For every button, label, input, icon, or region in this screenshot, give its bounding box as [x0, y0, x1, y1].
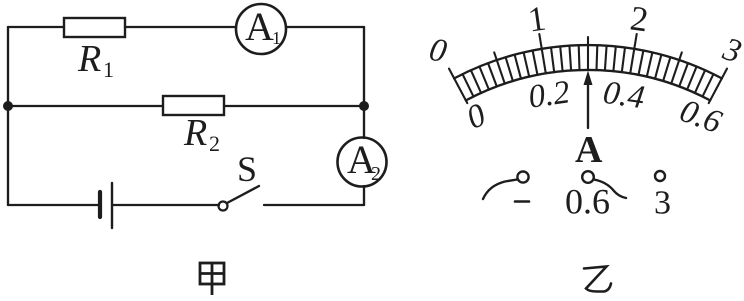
label R2 — [183, 112, 220, 156]
wire 0.6 terminal lead — [594, 180, 626, 199]
svg-text:R: R — [77, 38, 101, 80]
wire left vertical — [7, 27, 9, 205]
resistor R2 — [163, 96, 224, 115]
svg-text:0: 0 — [426, 32, 450, 71]
wire switch to battery — [113, 204, 219, 206]
svg-text:S: S — [237, 149, 257, 189]
label R1 — [77, 38, 114, 82]
svg-text:0.6: 0.6 — [675, 93, 727, 141]
svg-text:2: 2 — [628, 0, 651, 40]
resistor R1 — [64, 18, 125, 37]
meter scale upper numerals — [426, 0, 744, 71]
meter scale lower numerals — [462, 74, 727, 141]
wire R1 to A1 — [125, 26, 236, 28]
terminal negative — [517, 171, 528, 182]
svg-text:2: 2 — [209, 131, 220, 156]
wire right vertical upper — [363, 27, 365, 138]
svg-text:3: 3 — [654, 185, 671, 222]
node left junction — [3, 101, 13, 111]
wire negative terminal lead — [483, 180, 517, 200]
node right junction — [359, 101, 369, 111]
svg-text:1: 1 — [272, 28, 281, 48]
wire A1 to top right corner — [286, 26, 364, 28]
meter scale inner arc — [466, 70, 710, 100]
wire bottom left segment — [8, 204, 98, 206]
terminal 0.6 — [582, 171, 594, 183]
wire bottom right segment — [264, 204, 364, 206]
svg-text:R: R — [183, 112, 207, 154]
svg-text:0.4: 0.4 — [601, 75, 647, 116]
svg-text:1: 1 — [526, 0, 549, 40]
ammeter A2 — [338, 137, 387, 187]
meter scale outer arc — [454, 45, 722, 78]
terminal 3 — [655, 171, 665, 181]
switch S — [219, 186, 260, 211]
svg-text:A: A — [245, 4, 274, 49]
wire A2 to bottom right corner — [363, 186, 365, 205]
label jia caption — [200, 263, 224, 295]
battery cell — [100, 183, 112, 228]
ammeter A1 — [236, 4, 286, 54]
meter scale tick marks — [449, 34, 727, 103]
svg-text:3: 3 — [718, 31, 744, 71]
svg-text:0: 0 — [462, 97, 492, 137]
label yi caption — [584, 267, 611, 292]
svg-text:0.2: 0.2 — [526, 74, 572, 115]
svg-text:0.6: 0.6 — [565, 182, 610, 222]
wire middle left segment — [8, 105, 163, 107]
meter needle pointer — [584, 71, 593, 129]
svg-text:1: 1 — [103, 57, 114, 82]
wire R2 to right node — [224, 105, 364, 107]
svg-text:A: A — [575, 129, 603, 171]
wire top left segment — [8, 26, 64, 28]
label minus — [515, 200, 529, 203]
svg-text:2: 2 — [371, 163, 381, 185]
